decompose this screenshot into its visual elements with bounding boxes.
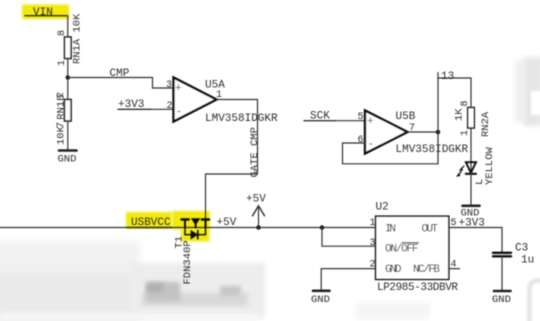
node junction VIN divider (66, 75, 71, 80)
svg-text:FDN340P: FDN340P (182, 240, 194, 284)
wire C3 to GND (501, 256, 503, 291)
wire GATE_CMP vertical (206, 100, 258, 220)
wire RN1A to junction (67, 59, 69, 78)
svg-text:OUT: OUT (422, 224, 439, 236)
svg-text:+: + (367, 116, 374, 128)
node U5B output junction (436, 130, 441, 135)
svg-text:2: 2 (167, 101, 173, 112)
ground below RN1B (58, 151, 77, 166)
wire CMP to U5A pin3 (153, 78, 174, 89)
svg-text:+5V: +5V (246, 194, 266, 206)
global label SCK (304, 111, 335, 123)
svg-text:U2: U2 (376, 202, 389, 214)
global label VIN (25, 7, 66, 19)
op-amp U5B (365, 111, 469, 157)
svg-text:5: 5 (358, 112, 364, 123)
svg-text:RN2A: RN2A (480, 111, 492, 137)
svg-text:1: 1 (460, 130, 471, 136)
wire SCK to U5B pin5 (335, 120, 365, 122)
wire LED to GND (470, 174, 472, 206)
svg-text:IN: IN (385, 224, 396, 236)
svg-text:4: 4 (451, 260, 457, 271)
svg-text:LMV358IDGKR: LMV358IDGKR (205, 113, 278, 125)
svg-text:1: 1 (370, 218, 376, 229)
svg-text:U5B: U5B (396, 111, 416, 123)
svg-text:10K RN1B: 10K RN1B (56, 95, 68, 145)
yellow highlight over VIN label (22, 5, 69, 20)
svg-text:+5V: +5V (217, 217, 237, 229)
wire +3V3 to U5A pin2 (151, 108, 174, 110)
svg-text:+3V3: +3V3 (459, 218, 485, 230)
blurred gray photo artifact bottom-left (0, 241, 265, 321)
svg-text:6: 6 (358, 135, 364, 146)
yellow highlight over USBVCC label (126, 212, 172, 229)
wire U2 pin2 to GND (321, 269, 375, 291)
blurred gray artifact right middle (515, 57, 540, 126)
ground below U2 pin2 (311, 291, 330, 306)
svg-text:1u: 1u (521, 255, 534, 267)
ground below LED (461, 206, 480, 220)
resistor RN2A (454, 100, 493, 137)
global label +3V3 (118, 99, 151, 111)
capacitor C3 (493, 243, 534, 267)
LED yellow D (457, 146, 497, 185)
blurred rounded window corner artifact bottom-right (355, 281, 540, 321)
wire U2 out to C3 (449, 228, 502, 252)
wire output up to RN2A (438, 78, 471, 132)
svg-text:CMP: CMP (110, 68, 130, 80)
wire RN2A to LED (470, 128, 472, 162)
wire main +5V rail (0, 227, 376, 229)
wire U5A output (217, 99, 258, 101)
transistor T1 FDN340P (174, 219, 210, 285)
svg-text:C3: C3 (515, 243, 528, 255)
svg-text:1K: 1K (454, 108, 466, 121)
svg-text:3: 3 (166, 80, 172, 91)
wire U5B feedback loop (343, 132, 439, 164)
svg-text:2: 2 (370, 260, 376, 271)
wire junction to U2 pin3 (322, 228, 376, 247)
op-amp U5A (174, 78, 279, 126)
resistor RN1A (57, 13, 84, 66)
svg-text:VIN: VIN (33, 7, 53, 19)
ground below C3 (492, 291, 511, 306)
node +5V junction (256, 225, 261, 230)
svg-text:NC/FB: NC/FB (413, 264, 440, 276)
svg-text:8: 8 (460, 100, 471, 106)
wire U5B output (408, 131, 439, 133)
wire RN1B to GND (67, 121, 69, 151)
svg-text:YELLOW: YELLOW (484, 146, 496, 185)
svg-text:LMV358IDGKR: LMV358IDGKR (396, 144, 469, 156)
power symbol +5V (246, 194, 266, 228)
yellow highlight over transistor T1 (173, 211, 211, 230)
svg-text:3: 3 (370, 238, 376, 249)
svg-text:13: 13 (441, 71, 454, 83)
svg-text:-: - (368, 139, 375, 151)
svg-text:8: 8 (57, 30, 68, 36)
pin 4 stub (449, 260, 460, 271)
svg-text:-: - (176, 107, 183, 119)
svg-text:GND: GND (385, 264, 402, 276)
svg-text:GND: GND (58, 154, 77, 166)
wire junction to RN1B (67, 78, 69, 100)
node rail junction to U2 (320, 225, 325, 230)
svg-text:RN1A 10K: RN1A 10K (72, 13, 84, 64)
svg-text:GND: GND (492, 294, 511, 306)
wire junction to CMP (68, 77, 153, 79)
regulator U2 LP2985 (376, 202, 459, 295)
global label USBVCC (127, 217, 173, 229)
svg-text:ON/OFF: ON/OFF (385, 244, 419, 256)
svg-text:1: 1 (57, 60, 68, 66)
svg-text:LP2985-33DBVR: LP2985-33DBVR (377, 282, 458, 294)
svg-text:GATE_CMP: GATE_CMP (249, 127, 261, 177)
svg-text:+: + (175, 83, 182, 95)
svg-text:GND: GND (311, 294, 330, 306)
resistor RN1B (56, 92, 72, 145)
wire VIN to RN1A (66, 16, 68, 37)
